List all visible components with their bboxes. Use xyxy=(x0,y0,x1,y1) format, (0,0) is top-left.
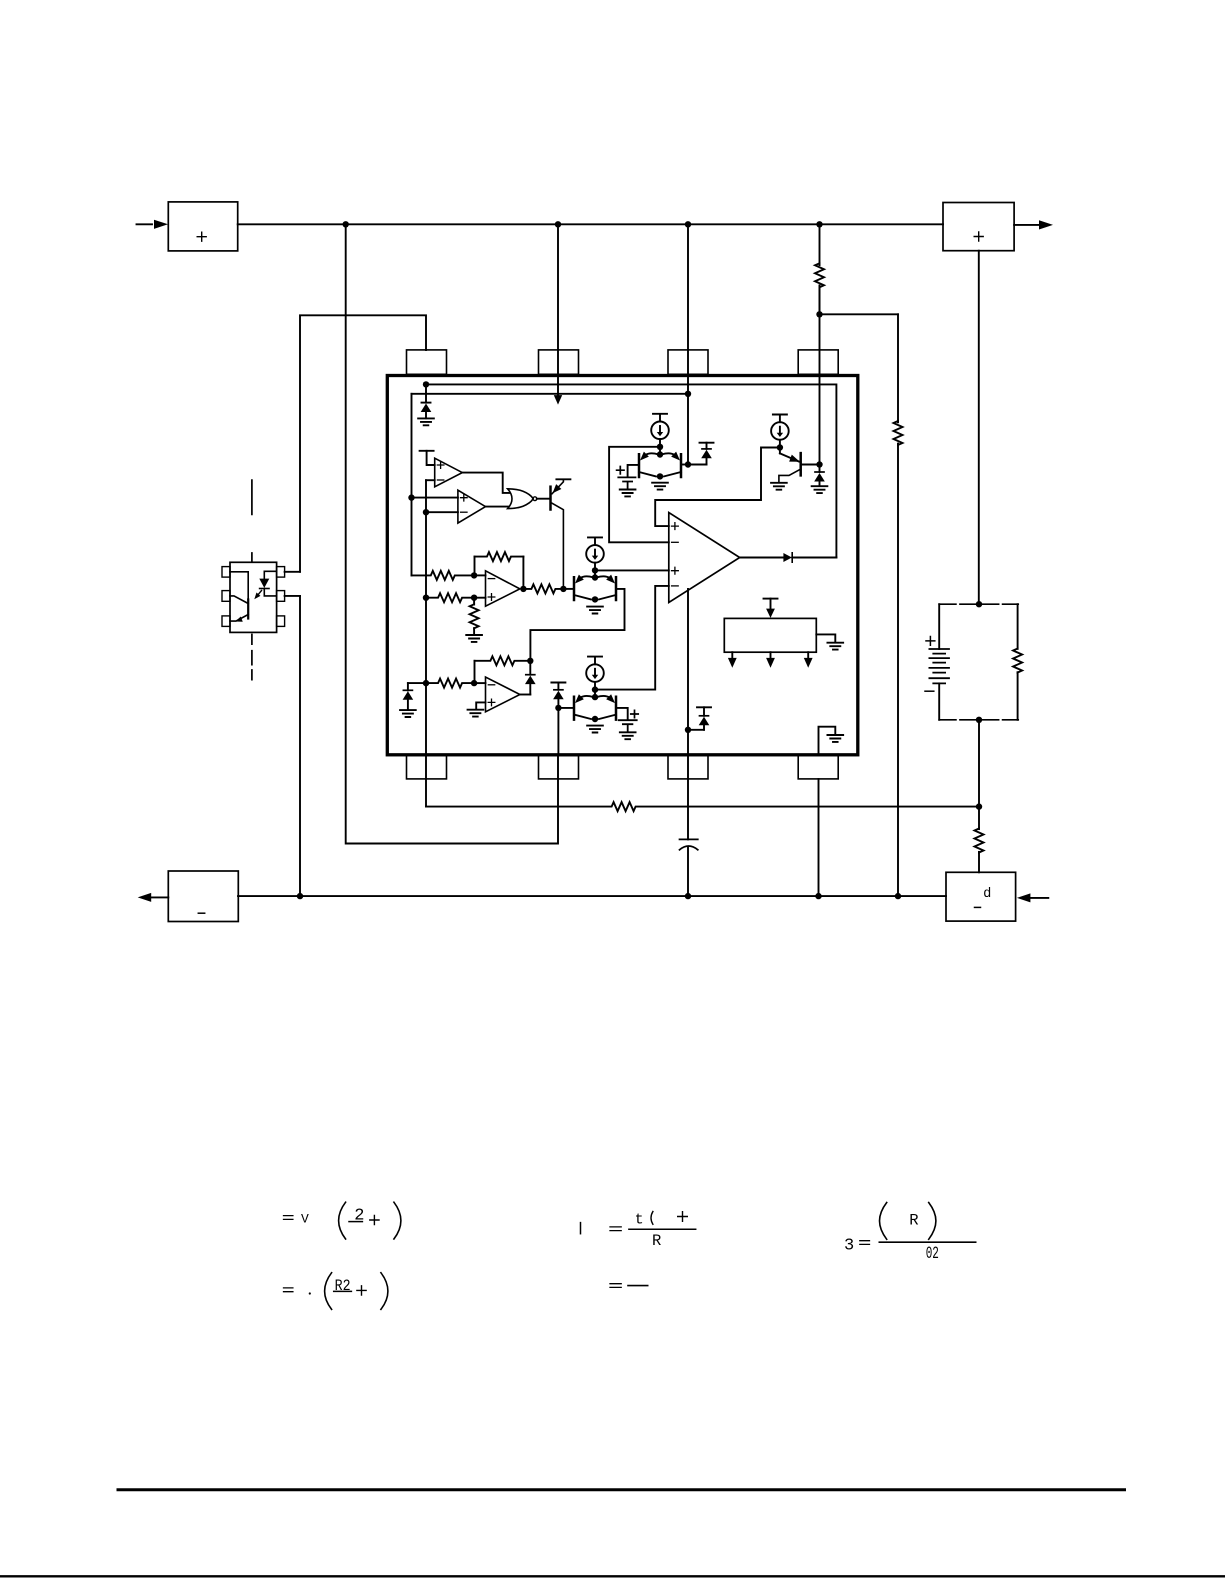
diode D9 with rail xyxy=(551,683,565,708)
horizontal rule xyxy=(118,1488,1125,1491)
wire internal rail 2 xyxy=(412,391,692,397)
resistor R2 right divider xyxy=(894,314,903,896)
node I4 output xyxy=(777,444,783,450)
svg-text:R: R xyxy=(909,1212,918,1230)
oscillator block U6 xyxy=(724,618,816,652)
diode D7 at op3 output xyxy=(520,661,536,695)
wire opto pin to ground line xyxy=(285,595,300,597)
formula 2 left xyxy=(284,1273,388,1310)
wire U5 output stage to bottom pin3 xyxy=(687,589,689,730)
node op3 feedback / loop xyxy=(527,658,533,664)
wire comparator B - input from L2 xyxy=(423,509,458,515)
svg-text:t: t xyxy=(635,1211,644,1228)
ground for op3 + input xyxy=(468,710,484,717)
block VIN- box xyxy=(168,871,238,922)
diode D4 clamp xyxy=(814,465,825,487)
page bottom edge xyxy=(0,1575,1225,1577)
IC U1 pin boxes xyxy=(407,350,839,779)
current source I1 xyxy=(651,414,669,447)
wire top pin3 feed xyxy=(687,224,689,464)
phototransistor Q4 inside optocoupler xyxy=(230,572,248,624)
node bus / R2 xyxy=(895,893,901,899)
op-amp U7 xyxy=(486,677,520,712)
wire comparator B output xyxy=(486,506,512,508)
NOR gate U2 xyxy=(508,489,537,509)
svg-text:d: d xyxy=(984,885,992,900)
ground for B1 xyxy=(620,490,636,497)
wire opto emitter to ground bus xyxy=(299,596,301,896)
wire bottom pin1 to sense resistor xyxy=(0,0,1,1)
wire op2 input leads xyxy=(474,575,485,597)
block load box xyxy=(946,872,1016,921)
ground for Q5/Q6 xyxy=(652,483,668,490)
node sense resistor to battery minus xyxy=(976,803,982,809)
ground for B2 xyxy=(620,732,636,739)
wire D9 node to Q8 base xyxy=(558,707,574,709)
resistor R10 op3 feedback xyxy=(475,656,531,683)
node I3 output xyxy=(592,686,598,692)
reference battery B2 xyxy=(616,708,638,732)
svg-text:3: 3 xyxy=(844,1237,854,1256)
optocoupler U3 body xyxy=(230,562,277,632)
wire U5 output xyxy=(740,557,784,559)
oscillator input arrow xyxy=(764,599,778,618)
transistor Q7 (PNP) xyxy=(779,448,801,483)
IC U1 outline xyxy=(387,376,858,755)
diode D5 clamp xyxy=(688,707,711,730)
ground for D6 xyxy=(400,710,416,717)
current source I3 xyxy=(586,657,604,690)
resistor R1 top right xyxy=(815,224,824,314)
wire output arrow from VOUT+ box xyxy=(1014,220,1053,229)
wire divider to R2 xyxy=(820,313,899,315)
transistor Q1 (PNP) xyxy=(550,479,571,589)
ground for oscillator xyxy=(816,634,843,649)
wire top pin2 supply arrow into chip xyxy=(554,224,562,404)
wire load box input arrow xyxy=(1017,893,1048,902)
ground for Q8/Q9 xyxy=(587,726,603,733)
wire I2 node to comparator input 3 xyxy=(595,569,669,571)
wire boost loop (top bus to bottom pin2) xyxy=(346,224,558,843)
wire left sense line L1 xyxy=(411,394,413,576)
ground for Q7 xyxy=(771,483,787,490)
svg-text:V: V xyxy=(301,1211,309,1226)
battery BT1 xyxy=(925,604,949,720)
comparator U5 (PWM) xyxy=(669,513,740,603)
battery pack dashed box xyxy=(939,604,1018,720)
ground for D1 xyxy=(418,418,434,425)
wire left sense line L2 xyxy=(425,480,427,806)
node battery top xyxy=(976,601,982,607)
ground for D4 xyxy=(812,486,828,493)
substrate ground bracket xyxy=(819,727,844,755)
resistor R8 op2 output series xyxy=(523,584,566,593)
dashed isolation line xyxy=(251,480,253,679)
wire top supply bus xyxy=(238,223,943,225)
node I2 output xyxy=(592,567,598,573)
wire battery bottom to sense node xyxy=(978,720,980,807)
optocoupler light arrow xyxy=(252,591,261,601)
resistor R5 op2 non-inverting input xyxy=(423,593,478,602)
node bus / opto xyxy=(297,893,303,899)
wire op3 + input to ground xyxy=(476,702,485,709)
wire op3 input lead xyxy=(474,682,485,684)
wire to middle diff pair base xyxy=(563,588,574,590)
node bus / pin4 xyxy=(815,893,821,899)
reference rail for comparator A xyxy=(420,451,435,465)
node U5 output stage / D5 xyxy=(685,727,691,733)
optocoupler U3 pins xyxy=(222,567,285,627)
current source I2 xyxy=(586,537,604,570)
transistor pair Q5/Q6 xyxy=(638,447,683,480)
LED D8 inside optocoupler xyxy=(259,571,276,596)
resistor R11 battery parallel xyxy=(1013,604,1022,720)
wire bottom pin4 to ground bus xyxy=(818,779,820,896)
wire output arrow from VIN- box xyxy=(138,893,169,902)
wire D6 to L2 node xyxy=(408,680,429,686)
wire Q7 base to pin4 line xyxy=(801,461,823,467)
comparator B xyxy=(458,490,486,523)
wire Q6 base to pin3 line xyxy=(681,461,691,467)
node R1 / divider junction xyxy=(816,311,822,317)
reference battery B1 xyxy=(617,465,639,489)
wire comparator A inverting input xyxy=(426,479,435,481)
wire opto collector to top pin1 xyxy=(300,315,426,572)
wire Q3 collector loop to op3 output node xyxy=(530,589,624,661)
formula 3 middle xyxy=(581,1211,696,1250)
wire U5 input4 from bottom cell xyxy=(595,586,669,690)
diode D6 input clamp xyxy=(403,683,414,710)
wire D9 node to bottom pin2 xyxy=(557,708,559,756)
diode D3 clamp xyxy=(688,443,714,465)
block VOUT+ output box xyxy=(943,203,1014,251)
svg-text:2: 2 xyxy=(354,1206,364,1225)
resistor R4 op2 inverting input xyxy=(412,571,478,580)
wire U5 input2 from left cell xyxy=(609,447,669,543)
wire ground return bus xyxy=(238,895,946,897)
wire input arrow to VIN+ box xyxy=(137,220,169,229)
oscillator output arrows xyxy=(728,652,813,668)
svg-text:R: R xyxy=(652,1232,661,1250)
node D9 / Q8 base / bottom pin2 xyxy=(555,705,561,711)
node top bus / loop tap xyxy=(343,221,349,227)
wire comparator B + input from L1 xyxy=(408,494,458,500)
wire U5 input1 from current mirror xyxy=(655,448,780,527)
resistor R9 op3 inverting input xyxy=(426,679,477,688)
node op2 output xyxy=(520,586,526,592)
comparator A xyxy=(435,458,463,487)
wire top pin4 feed xyxy=(819,286,821,465)
formula 5 right xyxy=(844,1203,976,1265)
zener diode D1 xyxy=(421,384,432,418)
capacitor C1 on pin3 xyxy=(680,730,698,896)
resistor R3 current sense xyxy=(426,802,979,811)
block VIN+ input box xyxy=(168,202,237,251)
node top bus / pin3 tap xyxy=(685,221,691,227)
wire VOUT+ box down to battery xyxy=(978,251,980,605)
node bus / C1 xyxy=(685,893,691,899)
node top bus / R1 tap xyxy=(816,221,822,227)
resistor R6 op2 feedback xyxy=(475,552,524,589)
wire comparator A output xyxy=(462,473,511,493)
node battery bottom xyxy=(976,717,982,723)
ground for R7 xyxy=(466,635,482,642)
formula 1 left xyxy=(284,1202,401,1239)
current source I4 xyxy=(771,415,789,448)
transistor pair Q2/Q3 xyxy=(573,570,618,602)
formula 4 middle xyxy=(610,1284,648,1288)
transistor pair Q8/Q9 xyxy=(573,690,618,723)
resistor R7 op2 to ground xyxy=(470,598,479,635)
diode D2 at U5 output xyxy=(783,553,836,562)
wire internal rail 1 (comparator output to zener) xyxy=(423,381,837,557)
wire opto pin to drive line xyxy=(285,571,300,573)
svg-text:02: 02 xyxy=(926,1244,939,1264)
resistor R12 to load box xyxy=(975,807,984,873)
node top bus / pin2 tap xyxy=(555,221,561,227)
ground for Q2/Q3 xyxy=(587,607,603,614)
node I1 output xyxy=(657,444,663,450)
wire gate output to Q1 base xyxy=(537,498,550,500)
op-amp U4 xyxy=(486,571,520,606)
